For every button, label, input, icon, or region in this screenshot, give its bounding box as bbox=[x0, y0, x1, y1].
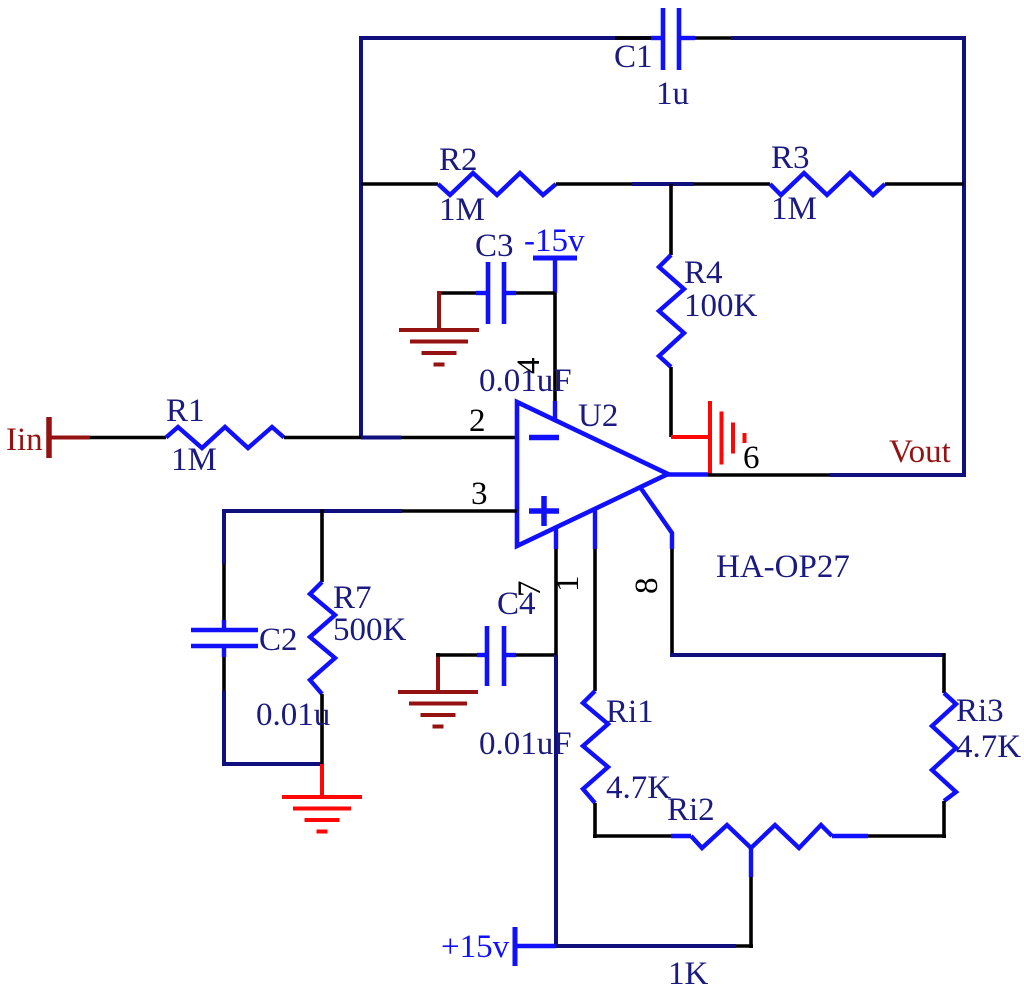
op-amp U2 minus input mark bbox=[529, 435, 559, 441]
svg-text:4.7K: 4.7K bbox=[956, 729, 1021, 765]
wire C2 bottom lead (black) bbox=[222, 657, 226, 691]
resistor R4 bbox=[659, 255, 684, 367]
svg-text:6: 6 bbox=[743, 440, 760, 476]
svg-text:1M: 1M bbox=[171, 442, 217, 478]
svg-text:R3: R3 bbox=[771, 140, 810, 176]
pin 1 stub (blue) bbox=[593, 508, 597, 549]
port -15v (blue) bbox=[533, 258, 577, 293]
svg-text:4.7K: 4.7K bbox=[606, 770, 671, 806]
resistor R3 bbox=[770, 173, 885, 195]
svg-text:R7: R7 bbox=[333, 580, 372, 616]
svg-text:R4: R4 bbox=[684, 255, 723, 291]
wire bottom horizontal C2-R7 (navy) bbox=[222, 762, 322, 766]
svg-text:0.01uF: 0.01uF bbox=[479, 726, 572, 762]
pin 7 stub (blue) bbox=[554, 526, 558, 549]
wire junction segment (navy) bbox=[632, 182, 694, 186]
capacitor C3 bbox=[476, 262, 516, 324]
svg-text:Vout: Vout bbox=[889, 434, 951, 470]
wire Ri3 top lead (black) bbox=[942, 653, 946, 693]
wire -15v node down to op-amp pin 4 (black) bbox=[553, 293, 557, 401]
ground maroon at C3 bbox=[399, 330, 479, 365]
resistor R1 bbox=[166, 427, 284, 448]
wire Ri2 tap down (black) bbox=[749, 877, 753, 948]
svg-text:R1: R1 bbox=[166, 393, 205, 429]
wire C2 top lead vertical (black) bbox=[222, 564, 226, 620]
svg-text:1: 1 bbox=[550, 576, 586, 593]
resistor R7 bbox=[310, 582, 335, 694]
wire +15v net corner (black) bbox=[736, 944, 753, 948]
wire pin 1 down to Ri1 (black) bbox=[593, 549, 597, 691]
capacitor C1 bbox=[651, 8, 695, 70]
wire C3 right to -15v node (black) bbox=[516, 291, 555, 295]
capacitor C2 bbox=[191, 620, 258, 657]
wire maroon stub to ground at C4 bbox=[436, 653, 440, 692]
svg-text:Iin: Iin bbox=[6, 422, 43, 458]
svg-text:500K: 500K bbox=[333, 612, 407, 648]
svg-text:1K: 1K bbox=[668, 956, 709, 988]
svg-text:HA-OP27: HA-OP27 bbox=[716, 549, 850, 585]
capacitor C4 bbox=[477, 626, 516, 686]
svg-text:8: 8 bbox=[629, 578, 665, 595]
wire to op-amp pin 2 (black) bbox=[401, 436, 517, 440]
wire junction to R3 (black) bbox=[694, 182, 770, 186]
svg-text:4: 4 bbox=[511, 358, 547, 375]
op-amp U2 triangle bbox=[517, 402, 668, 546]
wire top feedback net (navy, left of C1) bbox=[361, 36, 655, 40]
wire pin8 net horizontal to Ri3 (navy) bbox=[670, 653, 944, 657]
wire top feedback net (black segment left of C1) bbox=[615, 36, 651, 40]
wire junction segment pin2 (navy) bbox=[361, 436, 401, 440]
svg-text:+15v: +15v bbox=[441, 929, 510, 965]
ground rotated red at op-amp output bbox=[710, 401, 745, 475]
wire output to Vout (navy) bbox=[830, 473, 966, 477]
wire to op-amp pin 3 (black) bbox=[402, 509, 517, 513]
wire R2 to junction (black) bbox=[556, 182, 632, 186]
svg-text:R2: R2 bbox=[439, 142, 478, 178]
wire pin 8 down (black) bbox=[670, 549, 674, 657]
svg-text:U2: U2 bbox=[578, 398, 618, 434]
svg-text:C3: C3 bbox=[475, 228, 514, 264]
wire red stub to ground below R7 bbox=[320, 764, 324, 797]
wire top feedback net (navy, right of C1) bbox=[731, 36, 966, 40]
wire C4 left lead (black) bbox=[436, 653, 477, 657]
port +15v (blue) bbox=[515, 927, 556, 966]
svg-text:C4: C4 bbox=[497, 586, 536, 622]
pin 8 stub diagonal (blue) bbox=[640, 487, 672, 549]
wire pin7 net down to +15v (navy) bbox=[554, 655, 558, 948]
svg-text:Ri1: Ri1 bbox=[606, 694, 654, 730]
svg-text:0.01u: 0.01u bbox=[256, 697, 330, 733]
wire output to Vout (black) bbox=[708, 473, 830, 477]
wire R2 net left (black) bbox=[361, 182, 438, 186]
resistor R2 bbox=[438, 173, 556, 195]
svg-text:1M: 1M bbox=[439, 192, 485, 228]
ground maroon at C4 bbox=[398, 692, 478, 727]
wire C2 top lead vertical (navy) bbox=[222, 509, 226, 564]
svg-text:C1: C1 bbox=[614, 39, 653, 75]
resistor Ri2 with center tap bbox=[671, 825, 868, 877]
svg-text:100K: 100K bbox=[684, 288, 758, 324]
wire pin 7 down to C4 junction (black) bbox=[554, 549, 558, 655]
svg-text:1M: 1M bbox=[771, 191, 817, 227]
svg-text:-15v: -15v bbox=[524, 223, 585, 259]
resistor Ri3 bbox=[932, 693, 956, 801]
wire pin3 net (navy) bbox=[224, 509, 402, 513]
wire C4 right lead to pin7 net (black) bbox=[516, 653, 556, 657]
svg-text:Ri2: Ri2 bbox=[667, 792, 715, 828]
svg-text:1u: 1u bbox=[656, 76, 689, 112]
wire C3 left lead (black) bbox=[437, 291, 476, 295]
wire Ri2 to Ri3 bottom (black) bbox=[868, 834, 946, 838]
resistor Ri1 bbox=[583, 691, 608, 803]
wire R3 to right vertical (black) bbox=[885, 182, 964, 186]
wire R7 bottom lead (black) bbox=[320, 694, 324, 764]
pin 4 stub (blue) bbox=[553, 401, 557, 421]
wire top feedback net (black segment right of C1) bbox=[695, 36, 731, 40]
svg-text:3: 3 bbox=[471, 476, 488, 512]
ground red below R7 bbox=[282, 797, 362, 832]
wire R4 bottom lead (black) bbox=[669, 367, 673, 437]
wire Iin to R1 (black) bbox=[90, 436, 166, 440]
pin 6 output stub (blue) bbox=[665, 472, 708, 476]
wire Ri3 bottom lead (black) bbox=[942, 801, 946, 838]
wire +15v net horizontal (navy) bbox=[556, 944, 736, 948]
wire maroon stub to ground at C3 bbox=[437, 291, 441, 330]
wire R7 top lead (black) bbox=[320, 509, 324, 582]
svg-text:2: 2 bbox=[469, 403, 486, 439]
wire Ri1 to Ri2 (black) bbox=[593, 834, 671, 838]
wire red from R4 to rotated ground bbox=[671, 435, 710, 439]
wire Ri1 bottom lead (black) bbox=[593, 803, 597, 838]
wire C2 bottom vertical (navy) bbox=[222, 691, 226, 764]
svg-text:Ri3: Ri3 bbox=[956, 693, 1004, 729]
wire right vertical of feedback loop to Vout bbox=[962, 36, 966, 475]
op-amp U2 plus input mark bbox=[529, 496, 559, 526]
wire R4 top lead (black) bbox=[669, 184, 673, 255]
wire R1 to junction (black) bbox=[284, 436, 361, 440]
port Iin (maroon) bbox=[49, 417, 90, 458]
svg-text:C2: C2 bbox=[259, 622, 298, 658]
wire left vertical of feedback loop bbox=[359, 36, 363, 438]
